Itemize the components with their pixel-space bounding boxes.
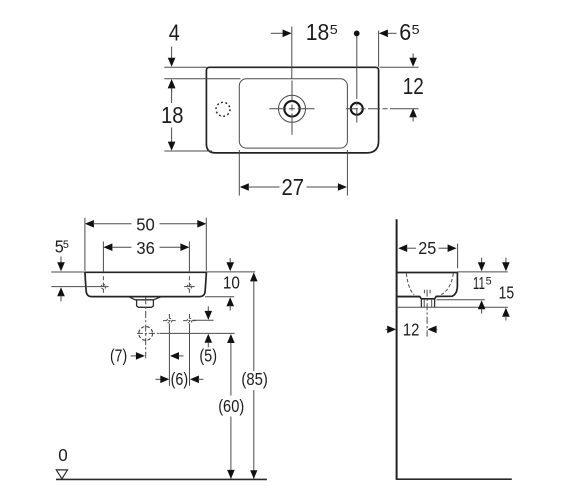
svg-text:0: 0 — [58, 445, 68, 465]
reference line: outlet bottom — [397, 306, 508, 308]
dimension (60) (trap height) — [218, 334, 244, 479]
reference line: fixing hole level — [193, 319, 214, 321]
svg-text:(5): (5) — [199, 346, 217, 366]
svg-text:50: 50 — [136, 215, 155, 235]
floor line (front view) — [56, 478, 267, 480]
svg-text:5: 5 — [330, 22, 338, 37]
svg-text:6: 6 — [399, 19, 411, 45]
extension line: top edge left — [164, 66, 206, 68]
reference line: flange bottom — [437, 299, 485, 301]
top view: side hole — [346, 85, 419, 123]
dimension 36 (tap hole spacing) — [103, 238, 189, 272]
svg-text:5: 5 — [412, 22, 420, 37]
extension line: bottom left — [164, 150, 212, 152]
svg-text:4: 4 — [169, 20, 180, 46]
side view: drain centreline — [426, 290, 428, 337]
dimension 10 (front height) — [223, 258, 240, 311]
svg-text:(85): (85) — [241, 369, 267, 389]
washbasin top view: inner rim — [239, 79, 347, 148]
reference line: rim level side — [458, 271, 508, 273]
svg-text:18: 18 — [161, 102, 184, 128]
dimension 6.5 (side hole to edge) — [379, 19, 420, 45]
svg-text:25: 25 — [418, 238, 436, 258]
reference line: trap level — [160, 332, 235, 334]
extension line: right edge up — [378, 31, 380, 67]
dimension 18.5 (tap hole position) — [271, 19, 360, 45]
dimension (7) (drain to fixing hole) — [110, 346, 184, 366]
svg-text:10: 10 — [223, 273, 240, 293]
front view: right fixing hole — [183, 314, 196, 328]
side view: basin profile — [397, 273, 458, 299]
svg-text:(6): (6) — [171, 369, 189, 389]
svg-text:5: 5 — [63, 239, 69, 251]
front view: left fixing hole — [163, 314, 176, 328]
dimension 15 (rim to outlet) — [499, 258, 515, 321]
reference line: basin bottom right — [205, 296, 234, 298]
side view: floor line — [396, 478, 512, 480]
extension line: side hole centre up — [356, 35, 358, 85]
dimension 18 (plan depth) — [161, 79, 184, 150]
svg-text:15: 15 — [499, 283, 515, 303]
front view: bowl underside and drain stub — [129, 297, 161, 308]
dimension 11.5 (rim to flange) — [473, 258, 492, 314]
svg-text:5: 5 — [486, 276, 492, 288]
svg-text:12: 12 — [403, 319, 420, 339]
side view: hidden bowl contour — [406, 274, 453, 295]
svg-text:11: 11 — [473, 273, 485, 293]
dimension 27 (bowl width) — [239, 150, 347, 200]
reference line: rim level left — [51, 271, 85, 273]
dimension 4 (plan, rim offset) — [168, 20, 180, 93]
svg-text:12: 12 — [403, 73, 424, 99]
svg-text:27: 27 — [282, 174, 305, 200]
side view: drain pipe — [421, 299, 434, 307]
dimension (5) (fixing to trap level) — [199, 306, 217, 365]
washbasin top view: outer outline — [206, 67, 378, 153]
dimension (85) (rim height) — [241, 272, 267, 479]
front view: right tap knockout — [184, 276, 195, 294]
svg-text:18: 18 — [306, 19, 330, 45]
svg-text:(60): (60) — [218, 396, 244, 416]
top view: tap hole — [269, 81, 314, 135]
reference line: tap level left — [51, 286, 108, 288]
extension line: basin front edge — [457, 244, 459, 269]
extension line: tap hole centre up — [291, 27, 293, 80]
dimension (6) (fixing hole spacing) — [156, 328, 204, 390]
front view: trap dashed circle — [137, 297, 160, 358]
dimension 5.5 (rim to tap line) — [55, 237, 69, 302]
dimension 12 (wall to drain) — [385, 319, 437, 339]
top view: overflow knockout (dotted circle) — [216, 102, 230, 116]
dimension 50 (overall width) — [85, 215, 206, 271]
front view: left tap knockout — [101, 276, 106, 294]
side view: wall line — [396, 219, 398, 480]
datum 0 symbol — [56, 445, 67, 479]
svg-text:(7): (7) — [110, 346, 127, 366]
extension line: inner rim top left — [164, 78, 240, 80]
washbasin front view: outline — [85, 272, 206, 296]
reference line: rim level right — [207, 271, 256, 273]
dimension 12 (plan, side hole offset) — [380, 54, 424, 122]
dimension 25 (basin depth) — [398, 238, 456, 258]
svg-text:36: 36 — [136, 238, 155, 258]
